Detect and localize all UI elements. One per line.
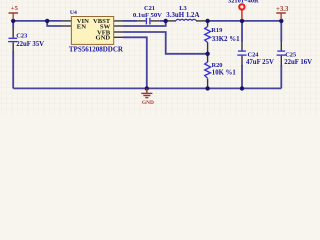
svg-text:3.3uH 1.2A: 3.3uH 1.2A xyxy=(166,12,199,19)
svg-text:33K2 %1: 33K2 %1 xyxy=(212,36,240,43)
svg-text:+3.3: +3.3 xyxy=(276,6,289,13)
svg-text:47uF 25V: 47uF 25V xyxy=(246,59,274,66)
svg-text:R19: R19 xyxy=(211,27,222,34)
svg-text:22uF 16V: 22uF 16V xyxy=(284,59,312,66)
svg-text:GND: GND xyxy=(142,100,154,106)
svg-text:R20: R20 xyxy=(212,62,223,69)
svg-text:U4: U4 xyxy=(70,10,77,16)
svg-text:22uF 35V: 22uF 35V xyxy=(16,41,44,48)
svg-text:32101=40R: 32101=40R xyxy=(228,0,259,4)
svg-text:TPS561208DDCR: TPS561208DDCR xyxy=(69,46,124,54)
svg-text:C24: C24 xyxy=(248,51,260,58)
svg-text:0.1uF 50V: 0.1uF 50V xyxy=(133,12,162,19)
svg-text:C23: C23 xyxy=(16,33,27,40)
svg-text:+5: +5 xyxy=(11,5,19,12)
svg-text:EN: EN xyxy=(77,23,86,30)
svg-text:L3: L3 xyxy=(179,5,186,12)
svg-text:10K %1: 10K %1 xyxy=(212,70,237,77)
svg-text:C25: C25 xyxy=(285,51,296,58)
svg-text:GND: GND xyxy=(96,35,111,42)
